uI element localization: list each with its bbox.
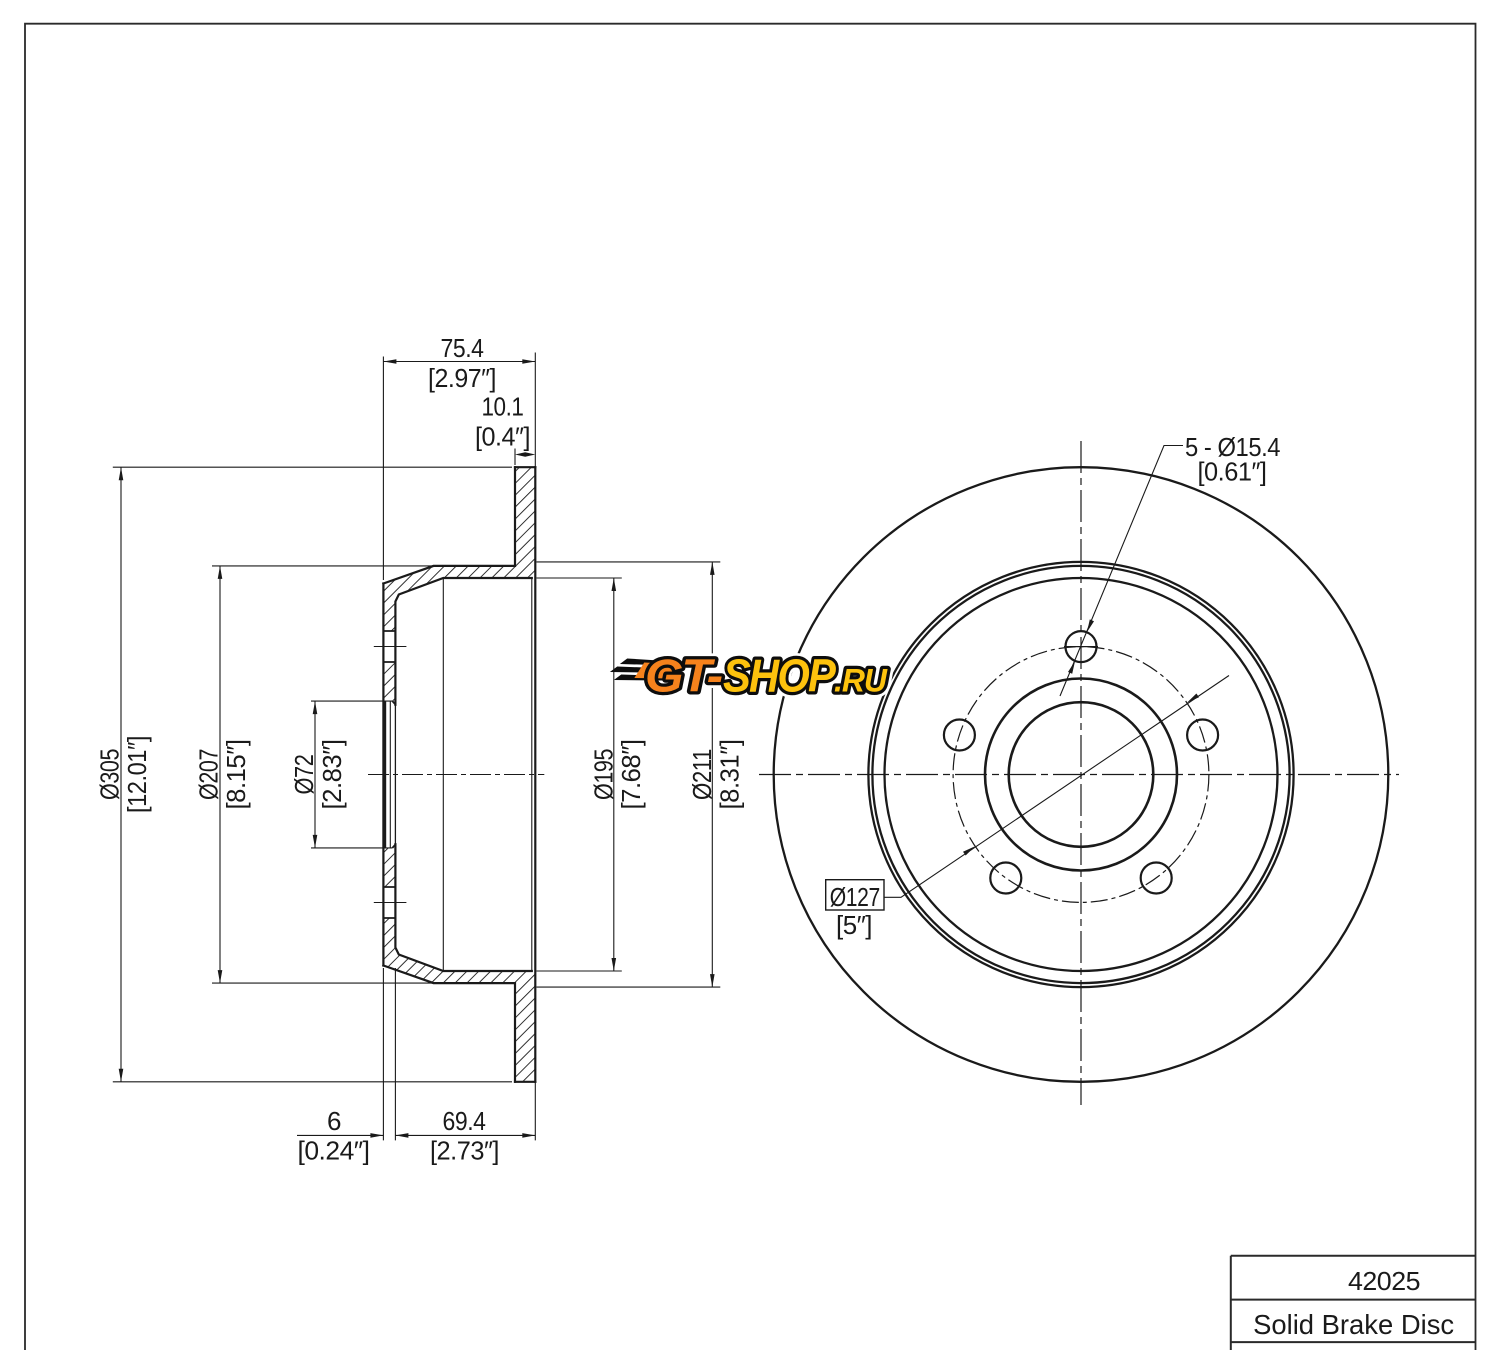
hat underside top — [395, 578, 531, 705]
hat underside circle D195 — [885, 578, 1278, 971]
dim 6 tail line — [297, 1134, 383, 1136]
arrow D72 top — [313, 701, 318, 714]
svg-text:.RU: .RU — [834, 663, 888, 699]
section hatch: upper hub flange between bolt hole and bore — [383, 662, 395, 705]
white halo layer — [645, 650, 888, 702]
svg-text:Ø195: Ø195 — [589, 749, 619, 800]
svg-text:Ø72: Ø72 — [289, 754, 319, 794]
title block — [1231, 1256, 1476, 1350]
svg-text:[0.24″]: [0.24″] — [298, 1135, 370, 1165]
arrow D211 bottom — [710, 974, 715, 987]
dim 10.1 left extension — [514, 449, 516, 466]
hub face visible through bore — [394, 705, 396, 844]
bore chamfer diagonals — [392, 701, 395, 848]
dim 75.4 line — [383, 361, 535, 363]
arrow D305 bottom — [119, 1069, 124, 1082]
dim D195 extensions — [537, 578, 622, 971]
disc OD edges — [515, 467, 535, 1082]
svg-text:[2.83″]: [2.83″] — [317, 740, 347, 810]
svg-text:Solid Brake Disc: Solid Brake Disc — [1253, 1309, 1454, 1340]
dim D195 line — [613, 578, 615, 971]
D127 basic dim box — [826, 880, 884, 910]
bolt hole edges in section (top) — [383, 631, 395, 662]
arrow diamond 10.1 — [515, 452, 535, 457]
arrow D195 bottom — [612, 958, 617, 971]
arrow D127 lower-left — [963, 846, 975, 855]
arrow D15.4 upper — [1087, 619, 1094, 632]
disc outboard face — [534, 467, 536, 1082]
svg-text:[8.15″]: [8.15″] — [221, 740, 251, 810]
arrow 75.4 left — [383, 359, 396, 364]
svg-text:Ø127: Ø127 — [830, 882, 880, 912]
leader 5-D15.4 — [1060, 446, 1183, 697]
arrow D195 top — [612, 578, 617, 591]
hat outer cone bottom — [383, 966, 515, 1082]
dim 6 and 69.4 extensions — [383, 968, 535, 1140]
section hatch: upper hat and friction band — [383, 467, 535, 631]
section hatch: lower hat and friction band — [383, 918, 535, 1082]
hat face circle D207 — [872, 566, 1289, 983]
bolt hole lower right — [1141, 863, 1172, 894]
bolt hole upper left — [944, 720, 975, 751]
section axis centerline — [368, 774, 544, 776]
svg-text:SHOP: SHOP — [723, 650, 836, 702]
svg-text:Ø207: Ø207 — [194, 749, 224, 800]
dim D211 extensions — [537, 562, 721, 987]
svg-text:6: 6 — [327, 1106, 341, 1136]
vertical centerline — [1080, 441, 1082, 1105]
friction band inner relief line — [531, 578, 533, 971]
arrow 75.4 right — [522, 359, 535, 364]
svg-text:[2.97″]: [2.97″] — [428, 363, 496, 393]
svg-text:[2.73″]: [2.73″] — [430, 1135, 499, 1165]
dim 69.4 line — [395, 1134, 535, 1136]
svg-text:[5″]: [5″] — [836, 910, 872, 940]
bolt hole upper right — [1187, 720, 1218, 751]
hub mounting face (left outline) — [382, 584, 384, 966]
arrow D207 bottom — [218, 970, 223, 983]
bore chamfer edge line — [389, 701, 391, 848]
dim D305 extensions — [113, 467, 512, 1082]
hat drum inner silhouette line — [442, 578, 444, 971]
bolt hole top center tick — [1064, 646, 1098, 648]
arrow 69.4 right — [522, 1133, 535, 1138]
dim D72 line — [314, 701, 316, 848]
leader D127 diagonal — [884, 676, 1229, 898]
svg-text:[7.68″]: [7.68″] — [616, 740, 646, 810]
dim D207 line — [219, 566, 221, 983]
arrow D211 top — [710, 562, 715, 575]
arrow D127 upper-right — [1187, 694, 1199, 703]
arrow 69.4 left — [395, 1133, 408, 1138]
svg-text:69.4: 69.4 — [443, 1106, 486, 1136]
bolt circle D127 dash-dot — [953, 647, 1209, 903]
center bore circle D72 — [1009, 702, 1154, 847]
section hatch: lower hub flange between bore and bolt hole — [383, 844, 395, 887]
hat underside bottom — [395, 844, 531, 971]
svg-text:[0.4″]: [0.4″] — [475, 421, 530, 451]
bolt hole center tick bottom — [374, 902, 407, 904]
svg-text:10.1: 10.1 — [482, 391, 524, 421]
dim D211 line — [711, 562, 713, 987]
bolt hole edges in section (bottom) — [383, 887, 395, 918]
svg-text:GT-: GT- — [645, 650, 722, 702]
arrow D15.4 lower — [1068, 661, 1075, 674]
black outline layer — [645, 650, 888, 702]
bolt hole center tick top — [374, 646, 407, 648]
disc outer circle D305 — [774, 467, 1389, 1082]
arrow 6 (points right at hub face) — [370, 1133, 383, 1138]
dim D207 extensions — [212, 566, 433, 983]
svg-text:75.4: 75.4 — [441, 333, 484, 363]
bolt hole lower left — [990, 863, 1021, 894]
dim 75.4 extension lines — [383, 353, 535, 581]
colored fill layer — [645, 650, 888, 702]
bore cylinder silhouette — [383, 701, 387, 847]
svg-text:[12.01″]: [12.01″] — [122, 736, 152, 813]
friction inner circle D211 — [868, 562, 1293, 987]
dim D72 extensions — [311, 701, 392, 848]
svg-text:Ø305: Ø305 — [95, 749, 125, 800]
arrow D305 top — [119, 467, 124, 480]
svg-text:Ø211: Ø211 — [687, 749, 717, 800]
gt-shop.ru watermark logo — [608, 650, 888, 702]
arrow D72 bottom — [313, 835, 318, 848]
svg-text:[8.31″]: [8.31″] — [715, 740, 745, 810]
svg-text:42025: 42025 — [1348, 1266, 1420, 1296]
bolt hole top — [1066, 631, 1097, 662]
hat outer cone top — [383, 467, 515, 583]
horizontal centerline — [759, 774, 1399, 776]
speed lines — [608, 659, 677, 681]
arrow D207 top — [218, 566, 223, 579]
dim D305 line — [120, 467, 122, 1082]
svg-text:[0.61″]: [0.61″] — [1198, 457, 1267, 487]
hub register circle — [985, 679, 1177, 871]
